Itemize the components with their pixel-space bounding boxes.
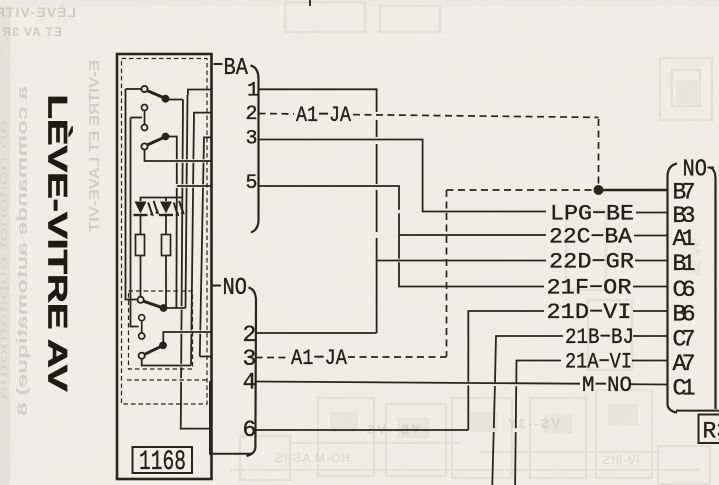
wire contact feed upper	[131, 117, 143, 119]
wire junction to B7	[599, 189, 668, 191]
wire left rail B	[131, 118, 139, 327]
wire v2 vertical with BA pin1 stub	[188, 90, 212, 96]
wire v3 vertical with BA pin2 stub	[194, 113, 212, 116]
svg-text:LPG−BE: LPG−BE	[550, 202, 634, 227]
svg-text:21A−VI: 21A−VI	[565, 350, 632, 375]
svg-text:NO: NO	[223, 275, 248, 302]
svg-text:4: 4	[243, 370, 257, 396]
svg-text:BA: BA	[224, 55, 249, 82]
switch SW3	[138, 297, 167, 311]
svg-text:21D−VI: 21D−VI	[547, 300, 632, 325]
wire BA3 to LPG-BE B3	[259, 140, 547, 212]
connector R1 right edge	[710, 168, 716, 410]
wire NO4 M-NO to C1	[256, 382, 581, 384]
svg-text:1168: 1168	[139, 447, 186, 478]
switch SW1	[141, 86, 168, 102]
wire BA5 to 22C-BA A1	[259, 186, 400, 210]
wire BA5 branch to 21F-OR C6	[398, 235, 400, 259]
svg-text:C1: C1	[673, 376, 696, 402]
wire A1-JA dashed horizontal to junction	[447, 189, 596, 191]
wire BA1 to NO2 net	[259, 89, 377, 112]
wire left rail A	[126, 89, 138, 300]
wire SW4 contact to NO pin2 stub	[163, 332, 211, 342]
wire D1 cathode to R1	[140, 215, 142, 235]
wire SW1 pivot to left rail	[126, 88, 142, 90]
LED D1	[134, 201, 160, 216]
svg-text:B1: B1	[673, 251, 696, 277]
wire A1-JA dashed vertical	[446, 190, 448, 357]
wire NO3 A1-JA dashed	[256, 356, 447, 359]
connector R1 bottom edge	[676, 410, 719, 412]
wire module bottom exit	[210, 381, 252, 454]
svg-text:2: 2	[246, 103, 258, 126]
switch SW2	[141, 134, 168, 150]
contact pair upper	[142, 105, 148, 131]
svg-text:2: 2	[243, 322, 257, 348]
connector R1 bracket	[668, 164, 678, 413]
wire NO2 horizontal	[256, 332, 377, 334]
wire NO6 to 21D-VI B6	[256, 429, 469, 431]
svg-text:3: 3	[246, 128, 258, 151]
wire SW2 contact to BA pin 5 stub	[169, 137, 177, 160]
svg-text:21B−BJ: 21B−BJ	[565, 325, 634, 350]
wire D2 cathode to R2	[165, 215, 167, 235]
contact pair lower	[139, 315, 145, 339]
component box R3 cut off	[699, 415, 719, 444]
junction node A1-JA/B7	[594, 185, 604, 195]
connector NO module bracket	[247, 288, 257, 457]
svg-text:B7: B7	[673, 180, 696, 206]
svg-text:22C−BA: 22C−BA	[549, 225, 633, 250]
switch SW4	[139, 342, 166, 358]
svg-text:B6: B6	[673, 302, 696, 328]
wire R1 to SW3	[140, 256, 142, 297]
dashed sub-assembly lower	[129, 291, 193, 369]
wire 21A-VI to A7	[514, 432, 517, 485]
svg-text:A1−JA: A1−JA	[296, 103, 352, 128]
LED D2	[159, 201, 185, 216]
switch module box 1168	[117, 54, 212, 479]
wire v1 vertical	[182, 100, 184, 160]
wire BA2 A1-JA dashed	[259, 114, 599, 187]
connector R1 label tick	[708, 167, 715, 169]
connector BA tick	[214, 63, 223, 65]
svg-text:A1: A1	[673, 226, 696, 252]
svg-text:A1−JA: A1−JA	[291, 346, 348, 371]
svg-text:5: 5	[246, 172, 258, 195]
svg-text:21F−OR: 21F−OR	[547, 276, 632, 301]
wire R2 to SW3 contact	[165, 256, 167, 309]
svg-text:R3: R3	[703, 419, 719, 445]
resistor R1	[136, 235, 145, 256]
svg-text:A7: A7	[673, 351, 696, 377]
svg-text:C6: C6	[673, 277, 696, 303]
wire 22D-GR to B1	[377, 260, 546, 262]
wire SW2 pivot lower	[145, 150, 212, 161]
wire LED2 anode	[165, 198, 167, 202]
dashed inner boundary outer	[122, 59, 208, 405]
resistor R2	[162, 235, 171, 256]
svg-text:6: 6	[243, 417, 257, 443]
wire v4 vertical with BA pin3 stub and NO pin3 stub	[204, 137, 212, 141]
svg-text:LÈVE-VITRE AV: LÈVE-VITRE AV	[43, 95, 74, 392]
wire LED anode bus	[141, 198, 183, 202]
connector BA bracket	[251, 66, 259, 233]
top edge tick	[309, 0, 311, 6]
wire 21B-BJ to C7	[492, 432, 493, 485]
wire SW4 pivot to v3	[142, 359, 191, 366]
svg-text:M−NO: M−NO	[582, 373, 632, 398]
connector NO module tick	[212, 285, 221, 287]
label box 1168	[133, 447, 193, 473]
svg-text:1: 1	[247, 80, 259, 103]
wire SW3 contact to v2	[167, 307, 186, 309]
svg-text:3: 3	[243, 346, 257, 372]
wire SW1 contact to v1	[169, 99, 184, 101]
svg-text:22D−GR: 22D−GR	[549, 250, 634, 275]
svg-text:C7: C7	[673, 327, 696, 353]
dashed inner boundary line	[127, 379, 207, 381]
